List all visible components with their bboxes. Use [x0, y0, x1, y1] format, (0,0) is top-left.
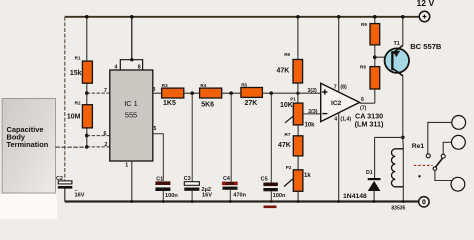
svg-text:R8: R8	[360, 64, 366, 69]
svg-text:1K5: 1K5	[163, 100, 176, 107]
wire R5 to op-amp + input	[262, 92, 320, 94]
svg-text:D1: D1	[366, 170, 373, 176]
svg-text:16V: 16V	[202, 193, 212, 199]
svg-text:C1: C1	[156, 176, 163, 182]
svg-text:1: 1	[125, 163, 128, 169]
svg-text:3: 3	[153, 87, 156, 93]
svg-text:(1,4): (1,4)	[340, 116, 351, 122]
wire pin 2	[87, 146, 110, 148]
svg-text:R2: R2	[75, 100, 81, 105]
diode D1 1N4148	[343, 170, 381, 201]
svg-text:C3: C3	[184, 176, 191, 182]
wire R3 to R4	[184, 92, 200, 94]
svg-text:IC 1: IC 1	[124, 99, 138, 108]
wire IC2 pin 4 to ground	[338, 113, 340, 202]
svg-text:R7: R7	[285, 132, 291, 137]
op-amp IC1 555 body	[110, 70, 153, 161]
svg-text:R6: R6	[284, 52, 290, 57]
stray dot	[418, 175, 420, 177]
svg-text:(8): (8)	[340, 85, 347, 91]
0V output terminal	[419, 197, 429, 207]
svg-text:P2: P2	[286, 165, 292, 170]
op-amp IC2	[321, 83, 360, 121]
svg-text:7: 7	[334, 85, 337, 91]
svg-text:6: 6	[361, 97, 364, 103]
capacitor C2	[56, 176, 85, 199]
svg-text:15k: 15k	[70, 70, 82, 77]
Capacitive Body Termination box	[2, 98, 55, 193]
+12V supply terminal	[417, 0, 435, 22]
relay coil Re1	[392, 137, 425, 201]
svg-text:12 V: 12 V	[417, 0, 435, 8]
junction R9/R8/base	[373, 55, 377, 59]
svg-text:16V: 16V	[75, 193, 85, 199]
svg-text:10M: 10M	[67, 113, 81, 120]
red artifact under rail	[264, 206, 277, 209]
svg-text:6: 6	[104, 131, 107, 137]
svg-text:7: 7	[104, 88, 107, 94]
svg-text:T1: T1	[394, 41, 400, 47]
wire NO contact	[443, 142, 451, 154]
svg-text:Termination: Termination	[7, 140, 49, 149]
svg-text:1N4148: 1N4148	[343, 193, 367, 200]
mechanical link dashes	[414, 164, 433, 166]
junction top rail / 555 supply	[130, 15, 134, 19]
svg-text:2: 2	[105, 142, 108, 148]
wire +12V top rail	[65, 16, 420, 18]
junction rail / IC2 supply	[337, 15, 341, 19]
wire pin 1 to ground	[131, 161, 133, 202]
junction top rail / R1	[85, 15, 89, 19]
svg-text:R4: R4	[200, 83, 206, 88]
wire base node to T1	[375, 56, 391, 58]
svg-text:4: 4	[334, 116, 337, 122]
wire 0V bottom rail	[65, 200, 419, 202]
potentiometer P1	[280, 97, 315, 129]
wire sensor box to pins 2/6 node	[55, 146, 86, 148]
svg-text:Re1: Re1	[412, 143, 425, 150]
svg-text:(LM 311): (LM 311)	[355, 120, 384, 129]
resistor R5	[241, 82, 263, 107]
wire R1/R2 vertical chain	[86, 17, 88, 147]
junction pin2 node	[85, 145, 89, 149]
svg-text:47K: 47K	[278, 142, 291, 149]
wire pins 4/8 bracket	[120, 17, 142, 70]
svg-text:C4: C4	[223, 176, 230, 182]
wire collector node to D1	[375, 137, 403, 178]
terminal circle 3	[451, 177, 465, 191]
resistor R1	[70, 56, 93, 84]
wire junction to C4	[230, 93, 232, 182]
wire pin 7	[87, 92, 110, 94]
terminal circle 1	[452, 116, 466, 130]
svg-text:P1: P1	[290, 97, 296, 102]
svg-text:R5: R5	[241, 82, 247, 87]
resistor R3	[162, 83, 184, 107]
svg-text:100n: 100n	[273, 193, 286, 199]
NC contact circle	[426, 154, 430, 158]
wire pin 5 to C1	[153, 134, 164, 181]
resistor R8	[360, 64, 380, 103]
capacitor C4	[222, 176, 247, 201]
junction bracket center	[130, 58, 133, 61]
wire C2 to ground rail	[64, 189, 66, 202]
wire pole to terminal 3	[435, 170, 452, 180]
wire R4 to R5	[222, 92, 241, 94]
resistor R4	[200, 83, 222, 108]
svg-text:R1: R1	[75, 56, 81, 61]
junction R5/C5	[270, 91, 274, 95]
junction pin6 node	[85, 134, 89, 138]
junction R1-R2 pin7 node	[85, 91, 89, 95]
wire left supply branch (rail to C2)	[64, 17, 66, 181]
white page corner bottom-left	[0, 194, 57, 219]
bottom rail junction ticks	[130, 200, 404, 203]
wire P1 to R7	[297, 125, 299, 136]
svg-text:R9: R9	[361, 22, 367, 27]
svg-text:(7): (7)	[360, 105, 367, 111]
NO contact circle	[441, 154, 445, 158]
svg-text:5: 5	[154, 126, 157, 132]
capacitor C3 (electrolytic)	[184, 176, 212, 201]
svg-text:3(2): 3(2)	[308, 88, 317, 94]
svg-text:1k: 1k	[304, 173, 311, 179]
svg-text:555: 555	[125, 111, 137, 120]
svg-text:470n: 470n	[233, 193, 246, 199]
wire pin 6	[87, 135, 110, 137]
svg-text:IC2: IC2	[331, 100, 342, 107]
wire P2 to ground	[297, 191, 299, 201]
wire IC2 output to R8	[360, 102, 375, 104]
svg-text:5K6: 5K6	[201, 101, 214, 108]
svg-text:10K: 10K	[280, 102, 293, 109]
resistor R7	[278, 132, 303, 156]
junction R6/P1 on + input wire	[296, 92, 299, 95]
resistor R2	[67, 100, 93, 127]
armature pivot circle	[433, 167, 437, 171]
resistor R6	[277, 15, 303, 103]
wire P1 wiper to op-amp - input	[303, 113, 321, 115]
junction collector/D1/coil	[401, 136, 405, 140]
transistor T1 BC557B	[385, 15, 442, 76]
svg-text:100n: 100n	[165, 193, 178, 199]
wire junction to C3	[191, 93, 193, 182]
wire pin 3 to R3	[153, 92, 162, 94]
terminal circle 2	[452, 135, 466, 149]
wire IC2 pin 7 to rail	[338, 17, 340, 93]
wire junction to C5	[270, 93, 272, 182]
wire R7 to P2	[297, 156, 299, 170]
relay contact terminals	[414, 116, 466, 192]
svg-text:R3: R3	[162, 83, 168, 88]
capacitor C1	[155, 176, 178, 201]
junction R3/R4/C3	[190, 91, 194, 95]
svg-text:C5: C5	[261, 177, 268, 183]
svg-text:83535: 83535	[391, 206, 405, 212]
svg-text:47K: 47K	[277, 68, 290, 75]
potentiometer P2	[284, 165, 311, 192]
wire T1 collector down	[402, 76, 404, 138]
svg-text:10k: 10k	[305, 123, 316, 129]
resistor R9	[361, 15, 380, 67]
svg-text:27K: 27K	[245, 100, 258, 107]
svg-text:2(3): 2(3)	[308, 109, 317, 115]
junction R4/R5/C4	[229, 91, 233, 95]
wire NC contact	[428, 122, 452, 153]
svg-text:C2: C2	[56, 176, 63, 182]
svg-text:8: 8	[138, 64, 141, 70]
svg-text:4: 4	[115, 65, 118, 71]
switch armature	[435, 158, 442, 167]
svg-text:BC 557B: BC 557B	[410, 42, 442, 51]
capacitor C5	[261, 177, 286, 202]
